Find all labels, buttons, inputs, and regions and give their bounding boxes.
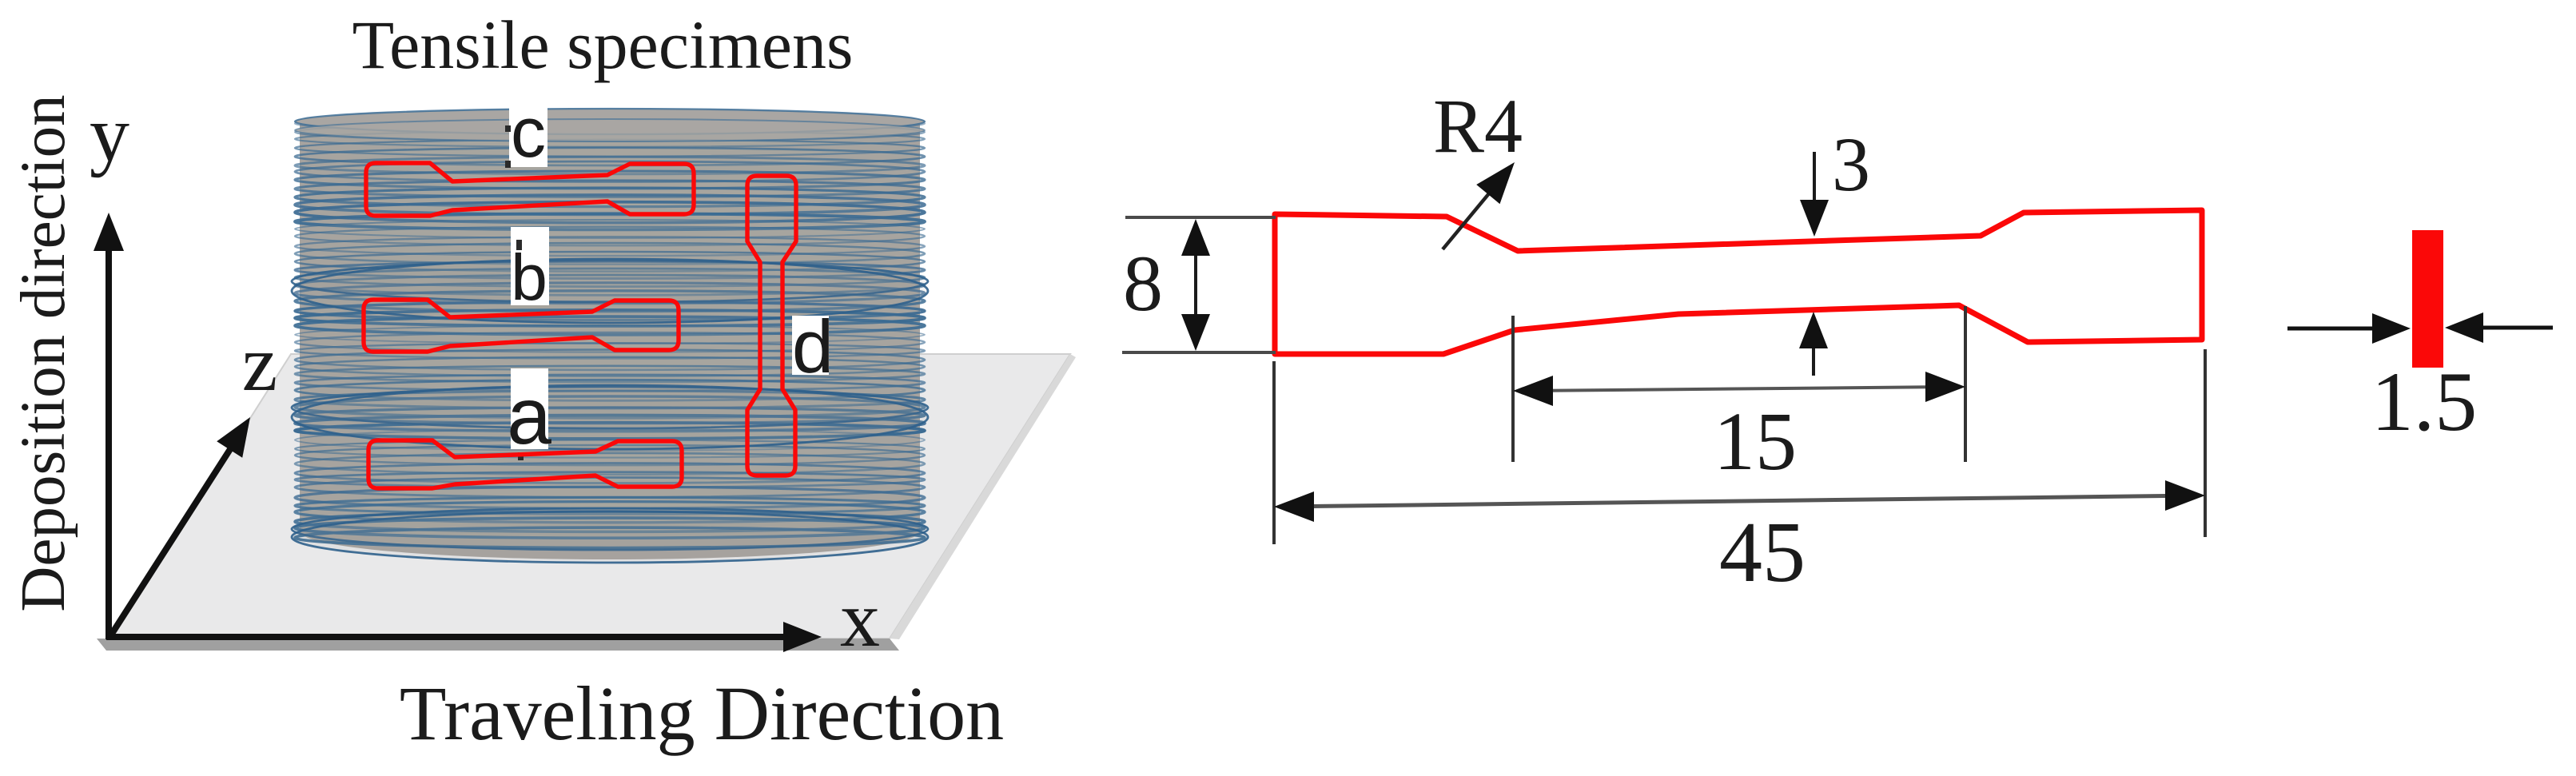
thickness arrows bbox=[2287, 312, 2553, 344]
svg-text:Deposition direction: Deposition direction bbox=[9, 94, 78, 611]
dimension 3: lower arrow bbox=[1799, 312, 1828, 376]
svg-text:y: y bbox=[90, 90, 129, 178]
dimension 8: extension lines bbox=[1122, 217, 1276, 352]
base plate (substrate) bbox=[97, 354, 1076, 651]
label slot d bbox=[792, 316, 829, 375]
deposited layer stack (weld beads) bbox=[292, 109, 928, 563]
svg-text:b: b bbox=[511, 241, 547, 314]
dimension 8: arrows bbox=[1181, 219, 1210, 351]
svg-text:R4: R4 bbox=[1433, 83, 1523, 169]
label slot a bbox=[511, 368, 548, 449]
dimension 15: extension lines bbox=[1513, 306, 1965, 462]
tensile specimen a (red outline) bbox=[368, 440, 682, 488]
svg-text:3: 3 bbox=[1832, 121, 1870, 207]
x axis (traveling direction) bbox=[106, 622, 822, 652]
svg-text:1.5: 1.5 bbox=[2371, 355, 2478, 448]
dog-bone specimen drawing (red outline) bbox=[1275, 210, 2202, 354]
tensile specimen c (red outline) bbox=[366, 163, 694, 216]
svg-text:a: a bbox=[507, 372, 551, 461]
svg-text:x: x bbox=[840, 575, 880, 663]
dimension 3: upper arrow bbox=[1800, 152, 1829, 237]
label slot c bbox=[509, 96, 547, 167]
z axis bbox=[110, 417, 250, 636]
svg-text:c: c bbox=[511, 93, 546, 172]
thickness bar (red) bbox=[2412, 230, 2443, 368]
svg-text:15: 15 bbox=[1714, 396, 1797, 487]
tensile specimen b (red outline) bbox=[364, 300, 679, 352]
svg-text:Traveling Direction: Traveling Direction bbox=[400, 671, 1004, 756]
svg-text:8: 8 bbox=[1123, 239, 1163, 328]
svg-text:z: z bbox=[242, 319, 277, 408]
dimension 15: dimension line with arrows bbox=[1513, 372, 1965, 406]
svg-text:Tensile specimens: Tensile specimens bbox=[352, 6, 854, 83]
svg-text:45: 45 bbox=[1719, 505, 1806, 600]
centerline ticks bbox=[505, 125, 524, 460]
y axis (deposition direction) bbox=[94, 213, 124, 639]
R4 leader arrow bbox=[1443, 162, 1515, 249]
label slot b bbox=[511, 227, 549, 305]
svg-text:d: d bbox=[792, 304, 834, 388]
dimension 45: dimension line with arrows bbox=[1274, 480, 2205, 522]
dimension 45: extension lines bbox=[1274, 349, 2205, 544]
tensile specimen d (vertical red outline) bbox=[747, 176, 796, 476]
